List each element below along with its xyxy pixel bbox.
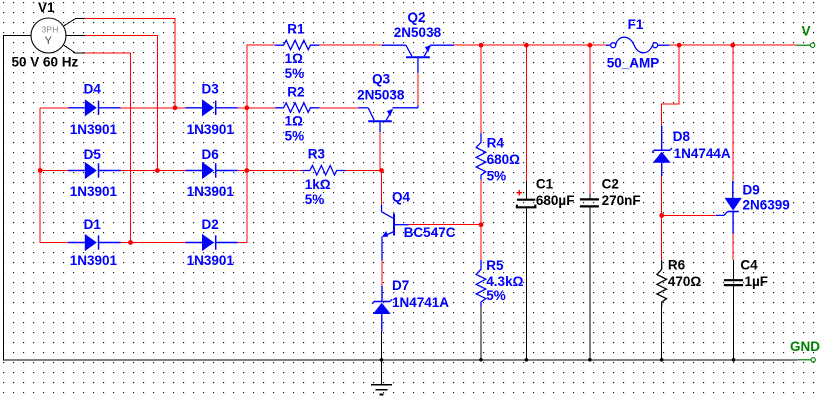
svg-text:1Ω: 1Ω [285,51,304,66]
svg-text:5%: 5% [486,288,506,303]
svg-text:1N3901: 1N3901 [70,122,118,137]
svg-text:V: V [802,24,811,39]
svg-text:1N3901: 1N3901 [187,253,235,268]
svg-text:R1: R1 [287,21,305,36]
svg-text:5%: 5% [285,129,305,144]
svg-text:1kΩ: 1kΩ [305,177,331,192]
svg-text:2N6399: 2N6399 [743,198,790,213]
svg-text:5%: 5% [285,66,305,81]
svg-text:1N3901: 1N3901 [70,184,118,199]
svg-text:C1: C1 [536,176,554,191]
svg-text:1N3901: 1N3901 [187,184,235,199]
svg-text:C4: C4 [740,258,758,273]
svg-text:R2: R2 [287,84,304,99]
svg-text:R3: R3 [308,147,326,162]
svg-text:D5: D5 [84,147,102,162]
svg-text:D3: D3 [202,81,220,96]
svg-text:D7: D7 [392,278,409,293]
svg-text:470Ω: 470Ω [668,274,702,289]
svg-text:1N4744A: 1N4744A [674,146,731,161]
svg-text:50_AMP: 50_AMP [607,56,660,71]
svg-text:F1: F1 [628,17,644,32]
svg-text:1Ω: 1Ω [285,114,304,129]
svg-text:Q3: Q3 [372,72,391,87]
svg-text:R5: R5 [486,258,504,273]
svg-text:1N4741A: 1N4741A [392,295,449,310]
svg-text:BC547C: BC547C [404,225,456,240]
svg-text:680µF: 680µF [536,193,575,208]
svg-text:D4: D4 [84,81,102,96]
svg-text:5%: 5% [487,168,507,183]
svg-text:1N3901: 1N3901 [70,253,118,268]
svg-text:GND: GND [790,339,820,354]
svg-text:1N3901: 1N3901 [187,122,235,137]
svg-text:V1: V1 [38,0,55,15]
svg-text:Q2: Q2 [408,10,426,25]
svg-text:3PH: 3PH [42,25,59,35]
svg-text:D2: D2 [202,217,219,232]
svg-text:Q4: Q4 [392,189,411,204]
svg-text:270nF: 270nF [602,193,641,208]
svg-text:D9: D9 [743,183,760,198]
svg-text:5%: 5% [305,192,325,207]
svg-text:1µF: 1µF [745,274,769,289]
svg-text:2N5038: 2N5038 [394,25,442,40]
svg-text:C2: C2 [602,176,619,191]
svg-text:D8: D8 [673,129,691,144]
svg-text:680Ω: 680Ω [487,152,521,167]
svg-text:D6: D6 [202,147,220,162]
svg-text:R4: R4 [487,135,505,150]
svg-text:Y: Y [45,35,53,47]
svg-text:R6: R6 [668,258,686,273]
svg-text:2N5038: 2N5038 [357,88,405,103]
svg-text:D1: D1 [84,217,102,232]
svg-text:50 V 60 Hz: 50 V 60 Hz [12,55,79,70]
